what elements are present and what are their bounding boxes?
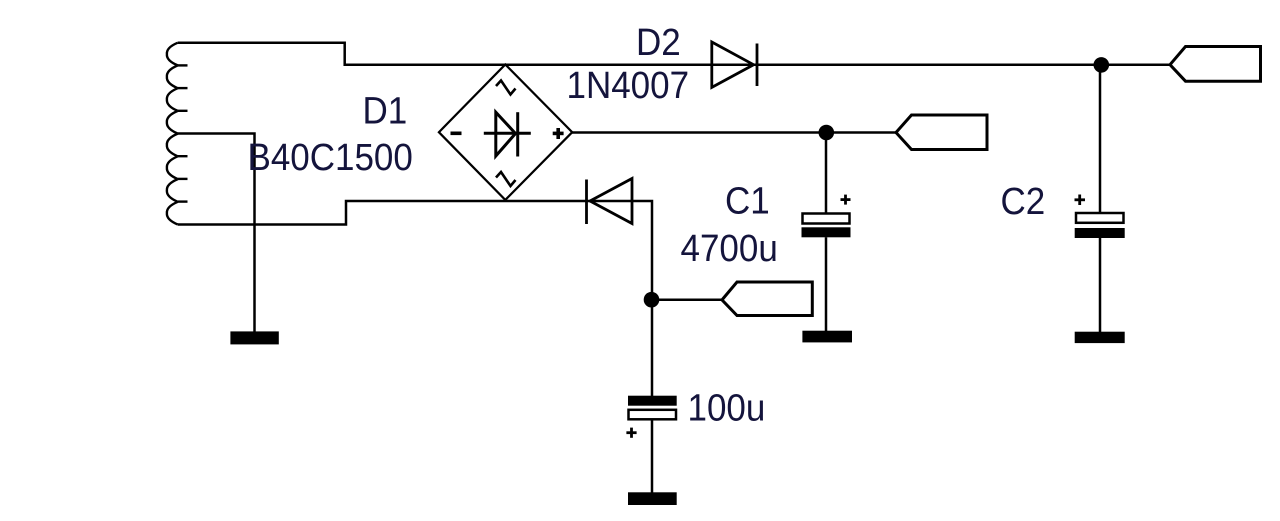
wire transformer center tap down to ground (178, 134, 255, 332)
bridge rectifier D1 diamond body (439, 65, 572, 200)
capacitor C1 bottom plate (802, 227, 851, 237)
svg-text:B40C1500: B40C1500 (248, 136, 413, 179)
wire C2 negative plate to ground (1099, 238, 1102, 332)
bridge D1 minus sign (451, 132, 462, 136)
ground C1 (802, 331, 852, 343)
connector flag DC+ (896, 115, 987, 150)
wire negative node to flag (652, 298, 722, 301)
transformer winding tap ticks (178, 65, 188, 201)
bridge D1 internal diode (484, 112, 531, 156)
wire top AC line from winding to flag through bridge top and D2 (178, 43, 1170, 65)
svg-text:4700u: 4700u (681, 227, 778, 270)
connector flag top right (1170, 47, 1261, 82)
svg-text:D1: D1 (363, 89, 408, 132)
connector flag negative (722, 282, 812, 316)
wire bottom AC line from winding through bridge bottom, diode D3 and down to node (178, 201, 652, 396)
capacitor C3 100u positive plate (629, 410, 677, 420)
ground center tap (230, 331, 278, 344)
svg-text:D2: D2 (636, 21, 681, 64)
bridge D1 plus sign (553, 128, 564, 139)
diode D3 on negative rail (587, 179, 633, 225)
ground C2 (1075, 332, 1125, 343)
wire 100u cap to ground (651, 420, 654, 493)
wire node to C1 positive plate (825, 133, 828, 214)
ground C3 (628, 492, 677, 505)
capacitor C1 plus sign (841, 195, 851, 205)
wire node to C2 positive plate (1099, 65, 1102, 213)
bridge D1 bottom AC tilde (496, 172, 516, 186)
capacitor C2 bottom plate (1075, 228, 1125, 238)
diode D2 (712, 42, 757, 87)
wire DC+ line from bridge right vertex to flag (572, 131, 896, 134)
capacitor C1 top plate (803, 214, 850, 224)
transformer T1 secondary winding bumps (167, 43, 178, 225)
node junction dot negative rail (644, 292, 660, 308)
capacitor C2 top plate (1076, 213, 1124, 223)
capacitor C3 plus sign (626, 428, 636, 438)
svg-text:C2: C2 (1001, 180, 1046, 223)
svg-text:1N4007: 1N4007 (567, 64, 690, 107)
capacitor C2 plus sign (1075, 195, 1086, 206)
bridge D1 top AC tilde (496, 81, 516, 95)
node junction dot top rail (1094, 57, 1110, 73)
wire C1 negative plate to ground (825, 237, 828, 331)
svg-text:100u: 100u (688, 386, 766, 429)
node junction dot DC+ (819, 125, 835, 141)
capacitor C3 100u negative plate (628, 396, 677, 406)
svg-text:C1: C1 (725, 179, 770, 222)
